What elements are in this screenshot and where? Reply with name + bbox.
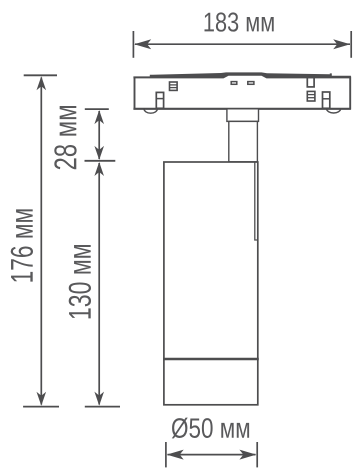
dimension 130mm bottom tick [85,406,120,408]
dimension 28mm arrow line [94,110,104,160]
dimension 176mm ticks [23,75,59,406]
dimension label 176 мм [11,209,33,281]
dimension 183mm arrow line [134,39,350,49]
right roller wheel [327,109,341,113]
dimension label 130 мм [69,245,91,318]
track adapter body outline [133,77,351,110]
dimension label Ø50 мм [172,418,249,439]
dimension 176mm arrow line [37,76,47,406]
stem neck [229,121,258,161]
track adapter top rail band [133,72,351,78]
left lock clip [156,92,163,108]
right contact grill [307,91,315,101]
right lock clip [323,92,330,108]
dimension 50mm ticks [166,442,257,467]
stem collar [227,109,259,122]
dimension 50mm arrow line [167,450,257,460]
left roller wheel [144,109,157,113]
dimension 183mm extension ticks [133,31,351,58]
dimension label 183 мм [205,12,274,31]
lamp cylinder body [164,162,258,405]
bezel separation line [163,358,259,360]
right phase selector slot [307,78,314,87]
dimension 130mm arrow line [94,162,104,406]
dimension 28mm ticks [85,109,116,161]
left contact grill [170,82,178,90]
center slot mark right [248,82,254,85]
side seam line [255,162,258,240]
dimension label 28 мм [54,106,76,169]
center slot mark left [231,82,237,85]
